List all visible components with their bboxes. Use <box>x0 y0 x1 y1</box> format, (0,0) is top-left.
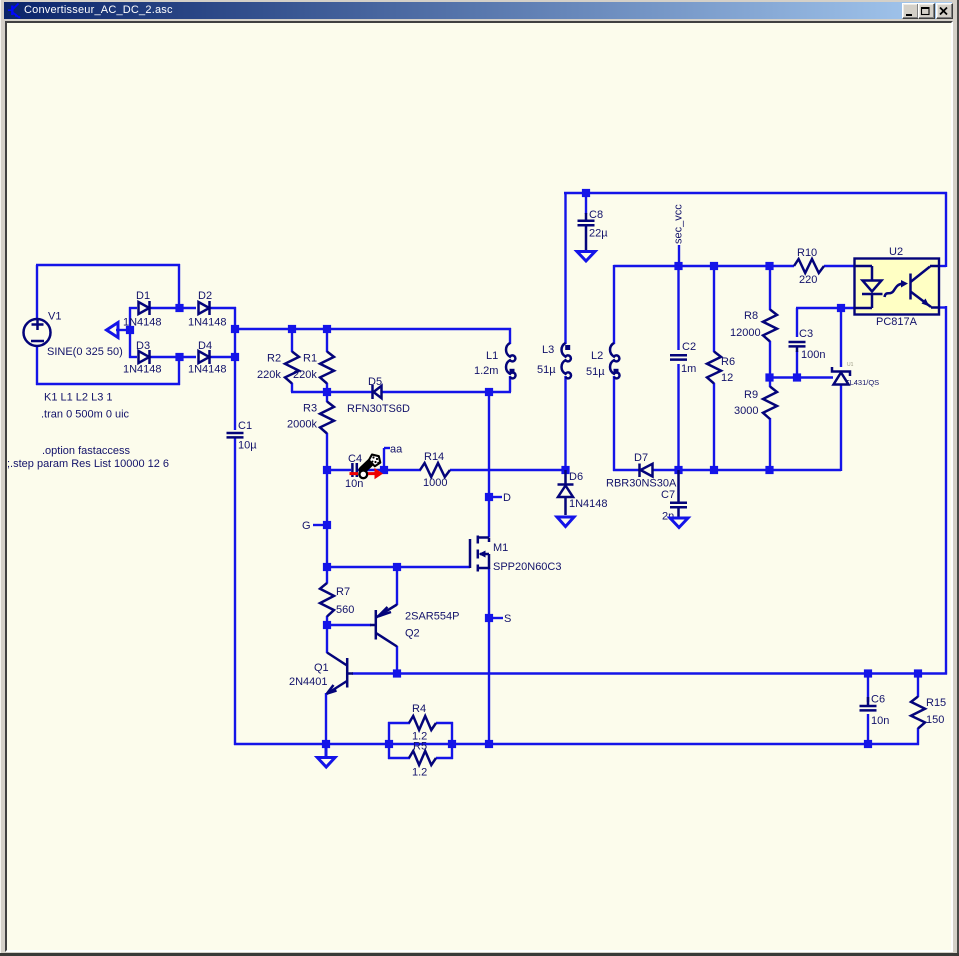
resistor R1 <box>320 352 334 384</box>
wire <box>450 469 566 471</box>
wire <box>327 469 351 471</box>
wire <box>325 693 327 745</box>
diode D4 <box>199 350 210 364</box>
resistor R2 <box>285 352 299 384</box>
junction <box>485 740 493 748</box>
wire <box>326 616 328 625</box>
wire <box>326 433 328 470</box>
wire <box>234 328 511 330</box>
wire <box>36 264 180 266</box>
svg-text:L1: L1 <box>486 350 498 362</box>
wire <box>36 346 38 385</box>
svg-text:C2: C2 <box>682 341 696 353</box>
wire <box>488 391 511 393</box>
junction <box>561 466 569 474</box>
svg-text:220: 220 <box>799 274 817 286</box>
svg-text:D2: D2 <box>198 290 212 302</box>
wire <box>388 757 410 759</box>
junction <box>323 521 331 529</box>
ground (Q1 emitter) <box>317 745 335 767</box>
mosfet M1 <box>470 536 489 572</box>
svg-text:C3: C3 <box>799 328 813 340</box>
junction <box>323 563 331 571</box>
wire <box>116 329 130 331</box>
wire <box>388 722 390 759</box>
svg-text:TL431/QS: TL431/QS <box>845 378 879 387</box>
resistor R10 <box>794 259 824 273</box>
ground (D6) <box>557 517 574 527</box>
resistor R3 <box>320 402 334 434</box>
svg-text:M1: M1 <box>493 542 508 554</box>
wire net aa <box>383 448 385 470</box>
junction <box>485 493 493 501</box>
svg-text:D7: D7 <box>634 452 648 464</box>
wire <box>917 728 919 745</box>
svg-text:RFN30TS6D: RFN30TS6D <box>347 403 410 415</box>
svg-text:R10: R10 <box>797 247 817 259</box>
wire <box>769 266 771 310</box>
wire <box>945 192 947 267</box>
wire <box>326 383 328 402</box>
svg-text:D5: D5 <box>368 376 382 388</box>
junction <box>485 614 493 622</box>
svg-text:R8: R8 <box>744 310 758 322</box>
junction <box>837 304 845 312</box>
capacitor C4 <box>352 463 356 477</box>
wire <box>796 351 798 379</box>
svg-text:R1: R1 <box>303 353 317 365</box>
svg-text:220k: 220k <box>257 369 281 381</box>
wire net aa tick <box>384 447 390 449</box>
wire <box>388 722 410 724</box>
wire <box>178 264 180 308</box>
svg-text:100n: 100n <box>801 349 825 361</box>
diode D1 <box>139 301 150 315</box>
svg-text:R14: R14 <box>424 451 444 463</box>
junction <box>765 373 773 381</box>
maximize button <box>918 3 935 19</box>
svg-text:51µ: 51µ <box>586 366 605 378</box>
minimize button <box>902 3 919 19</box>
wire <box>436 722 453 724</box>
junction <box>393 563 401 571</box>
wire <box>396 567 398 605</box>
svg-text:D: D <box>503 492 511 504</box>
svg-text:.tran 0 500m 0 uic: .tran 0 500m 0 uic <box>41 409 130 421</box>
wire <box>357 469 385 471</box>
svg-text:sec_vcc: sec_vcc <box>673 204 685 244</box>
wire <box>234 307 236 430</box>
window icon <box>6 2 24 19</box>
svg-text:PC817A: PC817A <box>876 316 918 328</box>
junction <box>582 189 590 197</box>
junction <box>710 466 718 474</box>
wire <box>652 469 680 471</box>
junction <box>323 466 331 474</box>
svg-text:R5: R5 <box>413 741 427 753</box>
wire <box>291 383 293 392</box>
svg-text:U2: U2 <box>889 246 903 258</box>
wire <box>564 192 947 194</box>
junction <box>380 466 388 474</box>
wire <box>840 308 842 367</box>
resistor R9 <box>763 387 777 420</box>
svg-text:;.step param Res List 10000 12: ;.step param Res List 10000 12 6 <box>7 458 169 470</box>
svg-text:D1: D1 <box>136 290 150 302</box>
wire <box>840 385 842 471</box>
svg-text:C6: C6 <box>871 694 885 706</box>
svg-text:D4: D4 <box>198 340 212 352</box>
wire <box>129 307 137 309</box>
svg-text:V1: V1 <box>48 311 61 323</box>
wire <box>178 357 180 385</box>
wire <box>36 265 38 319</box>
wire <box>291 391 328 393</box>
wire <box>209 356 236 358</box>
svg-text:C8: C8 <box>589 209 603 221</box>
inductor L3 <box>562 343 572 378</box>
wire <box>381 391 490 393</box>
capacitor C7 <box>670 470 687 517</box>
wire <box>384 469 421 471</box>
wire <box>509 328 511 344</box>
svg-text:12: 12 <box>721 372 733 384</box>
capacitor C2 <box>670 355 687 359</box>
junction <box>765 262 773 270</box>
wire <box>614 265 795 267</box>
wire <box>129 307 131 358</box>
diode D6 <box>558 470 574 515</box>
svg-text:.option fastaccess: .option fastaccess <box>42 445 131 457</box>
wire <box>291 329 293 352</box>
capacitor C1 <box>227 433 244 437</box>
wire <box>769 341 771 378</box>
svg-text:2000k: 2000k <box>287 419 317 431</box>
wire net G <box>313 524 327 526</box>
svg-text:1.2: 1.2 <box>412 767 427 779</box>
wire <box>326 625 328 653</box>
wire <box>149 356 196 358</box>
wire <box>326 470 328 568</box>
wire <box>234 743 919 745</box>
wire <box>488 568 490 745</box>
resistor R7 <box>320 583 334 617</box>
wire <box>679 469 842 471</box>
wire <box>129 356 137 358</box>
wire <box>917 674 919 698</box>
wire <box>824 265 855 267</box>
capacitor C6 <box>860 697 877 710</box>
diode D3 <box>139 350 150 364</box>
wire <box>326 329 328 352</box>
junction <box>288 325 296 333</box>
junction <box>323 621 331 629</box>
wire net S <box>489 617 503 619</box>
junction <box>393 669 401 677</box>
wire <box>451 722 453 759</box>
wire <box>509 376 511 392</box>
svg-text:R9: R9 <box>744 389 758 401</box>
svg-text:1N4148: 1N4148 <box>569 498 608 510</box>
svg-text:D3: D3 <box>136 340 150 352</box>
svg-text:220k: 220k <box>293 369 317 381</box>
svg-text:10n: 10n <box>871 715 889 727</box>
transistor Q1 <box>327 653 354 695</box>
svg-text:1000: 1000 <box>423 477 447 489</box>
wire <box>939 306 946 308</box>
junction <box>674 466 682 474</box>
wire <box>396 646 398 674</box>
junction <box>864 740 872 748</box>
svg-text:C4: C4 <box>348 453 362 465</box>
svg-text:1N4148: 1N4148 <box>123 317 162 329</box>
wire <box>585 193 587 214</box>
wire <box>327 566 470 568</box>
resistor R4 <box>409 716 436 730</box>
inductor L1 <box>506 343 516 378</box>
wire <box>36 383 180 385</box>
junction <box>323 388 331 396</box>
svg-text:K1 L1 L2 L3 1: K1 L1 L2 L3 1 <box>44 392 113 404</box>
svg-text:R4: R4 <box>412 703 426 715</box>
svg-text:U1: U1 <box>847 362 854 368</box>
junction <box>793 373 801 381</box>
svg-text:1m: 1m <box>681 363 696 375</box>
diode D2 <box>199 301 210 315</box>
wire <box>945 306 947 675</box>
svg-text:12000: 12000 <box>730 327 761 339</box>
wire <box>564 192 566 344</box>
junction <box>322 740 330 748</box>
junction <box>126 326 134 334</box>
wire <box>796 308 798 337</box>
shunt regulator U1 TL431 <box>832 367 850 385</box>
capacitor C8 <box>578 221 595 250</box>
svg-text:C7: C7 <box>661 489 675 501</box>
port arrow <box>107 323 119 338</box>
ground (C7) <box>670 518 688 528</box>
junction <box>485 388 493 396</box>
junction <box>385 740 393 748</box>
wire <box>488 392 490 537</box>
svg-text:aa: aa <box>390 444 403 456</box>
svg-text:22µ: 22µ <box>589 228 608 240</box>
wire <box>613 265 615 344</box>
close button <box>936 3 953 19</box>
wire <box>713 266 715 352</box>
wire <box>436 757 453 759</box>
transistor Q2 <box>370 605 397 647</box>
junction <box>765 466 773 474</box>
junction <box>864 669 872 677</box>
svg-text:2SAR554P: 2SAR554P <box>405 611 459 623</box>
wire <box>713 383 715 471</box>
wire <box>489 496 502 498</box>
diode D5 <box>373 385 382 399</box>
svg-text:1N4148: 1N4148 <box>188 317 227 329</box>
inductor L2 <box>610 343 620 378</box>
junction <box>710 262 718 270</box>
wire <box>327 624 371 626</box>
wire <box>677 266 679 350</box>
wire <box>327 391 372 393</box>
svg-text:R7: R7 <box>336 586 350 598</box>
capacitor C3 <box>789 342 806 352</box>
diode D7 <box>640 464 653 478</box>
svg-text:C1: C1 <box>238 420 252 432</box>
svg-text:1N4148: 1N4148 <box>188 364 227 376</box>
wire <box>796 307 855 309</box>
wire net sec_vcc <box>678 245 680 267</box>
resistor R6 <box>707 352 721 384</box>
svg-text:L3: L3 <box>542 344 554 356</box>
svg-text:R2: R2 <box>267 353 281 365</box>
junction <box>448 740 456 748</box>
wire <box>209 307 236 309</box>
junction <box>674 262 682 270</box>
wire <box>867 714 869 745</box>
resistor R15 <box>911 697 925 729</box>
svg-text:Q2: Q2 <box>405 628 420 640</box>
wire <box>770 376 833 378</box>
svg-text:S: S <box>504 613 511 625</box>
junction <box>231 325 239 333</box>
svg-text:L2: L2 <box>591 350 603 362</box>
svg-text:D6: D6 <box>569 471 583 483</box>
voltage source V1 <box>24 319 51 346</box>
wire <box>769 378 771 388</box>
svg-text:10µ: 10µ <box>238 440 257 452</box>
wire <box>939 265 946 267</box>
wire <box>149 307 196 309</box>
svg-text:1N4148: 1N4148 <box>123 364 162 376</box>
svg-text:Q1: Q1 <box>314 662 329 674</box>
wire <box>677 364 679 471</box>
current probe cursor at C4 <box>350 455 384 480</box>
wire <box>613 376 615 471</box>
svg-text:R15: R15 <box>926 697 946 709</box>
junction <box>914 669 922 677</box>
optocoupler U2 <box>855 259 940 315</box>
junction <box>231 353 239 361</box>
svg-text:G: G <box>302 520 311 532</box>
junction <box>175 353 183 361</box>
svg-text:R3: R3 <box>303 403 317 415</box>
resistor R14 <box>420 463 450 477</box>
svg-text:150: 150 <box>926 714 944 726</box>
resistor R8 <box>763 310 777 342</box>
svg-text:R6: R6 <box>721 356 735 368</box>
wire <box>234 438 236 745</box>
svg-text:3000: 3000 <box>734 405 758 417</box>
svg-text:SPP20N60C3: SPP20N60C3 <box>493 561 562 573</box>
svg-text:RBR30NS30A: RBR30NS30A <box>606 478 677 490</box>
resistor R5 <box>409 751 436 765</box>
svg-text:51µ: 51µ <box>537 364 556 376</box>
svg-text:SINE(0 325 50): SINE(0 325 50) <box>47 346 123 358</box>
ground (C8) <box>577 252 595 262</box>
wire <box>564 376 566 470</box>
wire <box>867 674 869 703</box>
wire <box>326 567 328 584</box>
svg-text:2N4401: 2N4401 <box>289 676 328 688</box>
wire <box>769 418 771 471</box>
wire <box>352 672 947 674</box>
junction <box>323 325 331 333</box>
svg-text:1.2m: 1.2m <box>474 365 498 377</box>
svg-text:10n: 10n <box>345 478 363 490</box>
junction <box>175 304 183 312</box>
svg-text:560: 560 <box>336 604 354 616</box>
wire <box>613 469 639 471</box>
